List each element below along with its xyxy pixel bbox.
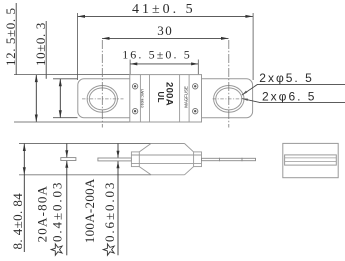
side view ceramic bottom outline (139, 167, 151, 175)
end view blade band (285, 155, 337, 165)
svg-text:UL: UL (156, 92, 165, 103)
svg-text:30: 30 (157, 23, 173, 38)
label 2xΦ6.5 (242, 89, 345, 103)
lead wire sample thin (0.4) (61, 158, 76, 161)
svg-text:0.6±0.03: 0.6±0.03 (102, 181, 117, 242)
right mounting tab (202, 79, 253, 118)
svg-text:MAGFUSE: MAGFUSE (183, 86, 188, 108)
svg-text:UWC M010: UWC M010 (140, 89, 144, 108)
dimension 10±0.3 label (33, 21, 48, 79)
side view body: plate (131, 154, 201, 156)
screw rivets center dots (134, 85, 196, 112)
dimension 12.5±0.5 label (3, 3, 18, 75)
dimension 8.4±0.84 (10, 144, 26, 253)
dimension arrows 12.5 (35, 75, 38, 122)
lead wire (0.6) (98, 158, 131, 161)
dimension arrows 10 (59, 79, 62, 118)
side view left end cap (131, 152, 139, 167)
left hole centerline horizontal (82, 98, 124, 100)
svg-text:2xφ5. 5: 2xφ5. 5 (259, 71, 313, 85)
screw rivets outer rings (132, 84, 197, 114)
dimension 30 (102, 23, 229, 40)
right hole (214, 86, 244, 113)
svg-text:20A-80A: 20A-80A (34, 185, 49, 243)
label 2xΦ5.5 (242, 71, 345, 95)
fuse body (130, 75, 202, 122)
right lead wire (202, 158, 256, 160)
svg-text:100A-200A: 100A-200A (82, 178, 97, 243)
side view ceramic top outline (139, 144, 151, 152)
right hole centerline horizontal (213, 98, 249, 100)
right hole centerline vertical (30 dim extension) (228, 40, 230, 128)
extension lines 10 (tab top/bottom extended left) (53, 78, 78, 80)
dimension line phi0.6 (117, 144, 120, 256)
svg-text:8. 4±0. 84: 8. 4±0. 84 (10, 193, 25, 250)
svg-text:10±0. 3: 10±0. 3 (33, 22, 48, 66)
side view right end cap (194, 152, 202, 167)
extension lines 12.5 (body top/bottom extended left) (14, 74, 130, 76)
label ☆0.4±0.03 (50, 181, 65, 256)
left hole centerline vertical (30 dim extension) (101, 40, 103, 128)
end view outer (283, 143, 338, 177)
svg-text:2xφ6. 5: 2xφ6. 5 (262, 89, 316, 103)
dimension 16.5±0.5 (122, 48, 198, 75)
svg-text:0.4±0.03: 0.4±0.03 (50, 181, 65, 242)
label ☆0.6±0.03 (102, 181, 117, 256)
body divider line 2 (149, 75, 151, 122)
body divider line 3 (179, 75, 181, 122)
left hole (87, 86, 117, 113)
dimension line phi0.4 (65, 144, 68, 256)
right lead wire break ticks (219, 158, 221, 161)
dimension 41±0.5 (78, 2, 254, 80)
body divider line 4 (188, 75, 190, 122)
body divider line 1 (139, 75, 141, 122)
svg-text:41±0. 5: 41±0. 5 (132, 2, 196, 17)
side view extension lines (8.4) (19, 143, 151, 145)
svg-text:16. 5±0. 5: 16. 5±0. 5 (122, 48, 192, 62)
left mounting tab (78, 79, 130, 118)
svg-text:12. 5±0. 5: 12. 5±0. 5 (3, 7, 18, 66)
